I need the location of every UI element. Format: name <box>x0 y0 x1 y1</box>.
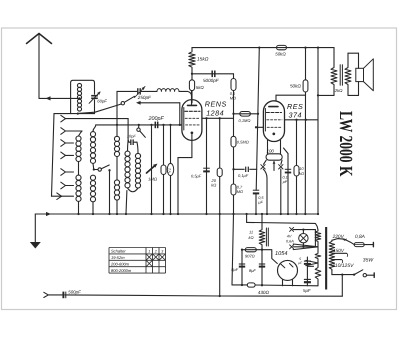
svg-text:907Ω: 907Ω <box>245 254 255 259</box>
svg-text:T.A.: T.A. <box>168 168 172 174</box>
svg-text:RENS: RENS <box>205 100 227 109</box>
svg-text:35W: 35W <box>363 258 375 264</box>
svg-text:0,1μF: 0,1μF <box>238 173 249 178</box>
svg-text:19-52m: 19-52m <box>111 255 125 260</box>
svg-text:2kΩ: 2kΩ <box>334 88 343 93</box>
svg-text:MΩ: MΩ <box>230 96 236 101</box>
svg-text:200pF: 200pF <box>148 116 165 122</box>
svg-text:100: 100 <box>267 148 275 153</box>
svg-text:50kΩ: 50kΩ <box>275 51 286 56</box>
svg-text:220V: 220V <box>332 234 345 240</box>
svg-text:0,5MΩ: 0,5MΩ <box>237 139 249 144</box>
svg-text:150V: 150V <box>333 248 345 253</box>
svg-text:0,6A: 0,6A <box>286 239 294 243</box>
svg-text:60pF: 60pF <box>97 99 107 104</box>
svg-text:0,8A: 0,8A <box>355 234 365 240</box>
svg-text:kΩ: kΩ <box>249 235 254 240</box>
svg-text:250pF: 250pF <box>137 95 152 100</box>
svg-text:0,5: 0,5 <box>258 196 264 200</box>
svg-text:8μF: 8μF <box>249 268 256 273</box>
svg-text:kΩ: kΩ <box>211 183 216 188</box>
svg-text:110/125V: 110/125V <box>332 263 354 269</box>
svg-text:3: 3 <box>161 250 163 254</box>
svg-text:μF: μF <box>282 180 288 184</box>
svg-text:MΩ: MΩ <box>237 189 243 194</box>
svg-text:500pF: 500pF <box>68 289 81 294</box>
svg-text:8μF: 8μF <box>231 267 238 272</box>
svg-text:kΩ: kΩ <box>299 171 304 176</box>
svg-text:0,5μF: 0,5μF <box>191 174 202 179</box>
svg-text:50kΩ: 50kΩ <box>290 83 301 88</box>
svg-text:5μF: 5μF <box>303 288 311 293</box>
svg-text:0,1: 0,1 <box>283 175 288 179</box>
svg-text:10pF: 10pF <box>127 133 136 138</box>
svg-text:430Ω: 430Ω <box>258 290 270 295</box>
svg-text:1054: 1054 <box>275 251 287 257</box>
svg-text:LW 2000 K: LW 2000 K <box>335 111 355 177</box>
svg-text:200-600m: 200-600m <box>110 262 130 267</box>
svg-text:0,1MΩ: 0,1MΩ <box>239 118 251 123</box>
svg-text:5kΩ: 5kΩ <box>196 85 205 90</box>
svg-text:1: 1 <box>148 250 150 254</box>
svg-text:5000pF: 5000pF <box>203 78 220 83</box>
svg-text:1MΩ: 1MΩ <box>148 177 158 182</box>
svg-text:Schalter: Schalter <box>111 249 126 254</box>
svg-text:15kΩ: 15kΩ <box>197 57 209 63</box>
svg-text:2: 2 <box>154 250 157 254</box>
svg-text:μF: μF <box>257 201 263 205</box>
svg-text:1284: 1284 <box>206 108 224 117</box>
svg-text:800-2000m: 800-2000m <box>111 268 132 273</box>
svg-text:4V: 4V <box>287 235 292 239</box>
svg-text:374: 374 <box>289 110 303 119</box>
